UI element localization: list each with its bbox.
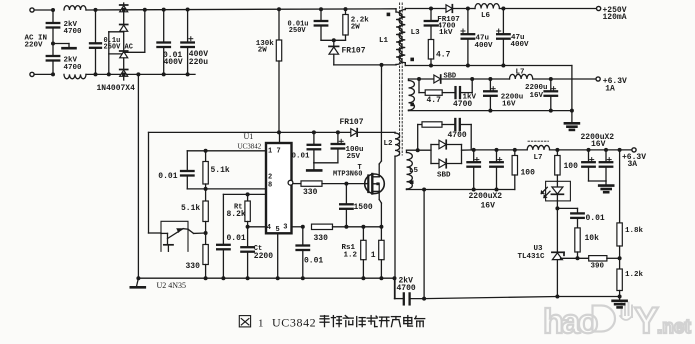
wire 6.3V1A winding top [409,77,434,81]
transformer secondary winding L5 [407,150,413,189]
svg-text:2: 2 [268,174,272,182]
svg-text:220u: 220u [189,58,208,67]
node +6.3V 1A output terminal [596,77,600,81]
wire pin3 current sense [292,225,305,229]
wire L5 top node [407,148,432,152]
inductor line-filter choke top winding [64,6,86,10]
svg-text:U2 4N35: U2 4N35 [157,281,187,290]
svg-text:3A: 3A [628,160,638,169]
svg-text:L5: L5 [409,167,419,175]
svg-text:L1: L1 [379,37,389,45]
wire SBD out [462,148,476,152]
resistor 100 LED feed [555,148,560,181]
label 4700 snubber 3A [448,131,467,140]
wire bridge AC2 stub [107,32,124,77]
label 2.2k 2W [351,17,370,32]
svg-text:16V: 16V [530,92,544,100]
wire [34,9,53,11]
label 2200ux2 16V [469,192,503,211]
svg-text:4700: 4700 [397,284,416,293]
diode SBD pair lower [431,145,462,168]
label +250V 120mA [603,6,627,22]
svg-text:3: 3 [283,224,287,232]
label 4.7 snubber [427,96,442,105]
svg-text:L2: L2 [384,140,394,148]
svg-text:UC3842: UC3842 [238,143,262,151]
ground 6.3V1A [565,109,579,130]
svg-text:390: 390 [591,262,605,270]
inductor L7 filter 6.3V1A [472,74,598,79]
svg-text:4700: 4700 [64,28,83,36]
svg-text:4700: 4700 [64,64,83,72]
diode FR107 rectifier 250V [446,5,468,13]
ground Vcc caps [307,163,338,171]
wire primary ground rail [138,276,396,280]
label 5.1k lower [181,204,200,213]
transformer secondary winding L4 [409,79,415,111]
capacitor 100u 25V Vcc [332,130,345,162]
wire bottom AC rail [86,73,195,75]
capacitor 47u 400V first [461,7,474,68]
wire LED cathode [555,201,559,211]
svg-text:400V: 400V [164,58,183,67]
wire TL431 ref [561,257,589,259]
svg-text:4700: 4700 [453,100,472,109]
label 4.7 [436,51,451,60]
label 100 bleeder [521,169,536,178]
label 1 ohm [371,251,376,260]
svg-text:2200uX2: 2200uX2 [469,192,503,201]
wire drain [380,65,382,161]
svg-text:1kV: 1kV [439,29,453,37]
svg-text:2W: 2W [351,24,361,32]
svg-text:5.1k: 5.1k [211,166,230,175]
label UC3842 [238,143,262,151]
label U1 [244,132,254,141]
svg-text:hao: hao [543,303,598,341]
svg-text:U1: U1 [244,132,254,141]
wire source [379,203,383,229]
node AC input terminal bottom [30,72,34,76]
diode FR107 Vcc rectifier [340,118,364,136]
svg-text:7: 7 [277,147,281,155]
svg-text:8.2k: 8.2k [227,210,246,219]
label Rs1 1.2 [342,244,358,259]
svg-text:220V: 220V [25,41,44,49]
transformer core [400,3,403,155]
wire Vcc rail [149,130,396,134]
watermark [543,300,691,341]
wire 250V bottom rail [405,65,572,67]
resistor Rt 8.2k [245,194,250,228]
resistor 130k 2W startup [276,7,281,132]
label FR107 [437,16,460,24]
label 0.01 sense [304,256,323,265]
transistor T MTP3N60 MOSFET [365,161,385,203]
svg-text:330: 330 [314,234,329,243]
svg-text:0.01: 0.01 [586,214,605,223]
wire 250V top rail left [405,8,446,10]
capacitor snubber 1kV 4700 [442,79,472,98]
capacitor C4 220u 400V electrolytic [181,8,194,77]
capacitor CX 0.1u 250VAC [90,8,101,77]
wire pin7 Vcc stub [279,132,281,143]
label 0.01 Vcc [292,152,311,160]
wire 3A bottom rail [407,188,515,192]
svg-text:FR107: FR107 [340,118,364,127]
label 47u 400V second [511,34,530,49]
svg-text:0.01: 0.01 [304,256,323,265]
resistor 330 divider [203,233,208,280]
resistor snubber 4.7 6.3V1A [419,79,442,95]
wire pin1 net [187,150,266,152]
ground secondary [613,297,627,308]
capacitor 2200u second 3A [490,148,503,192]
resistor 1.8k [617,148,622,258]
inductor L7 filter 3A [527,141,634,150]
label 330 gate [303,188,318,197]
svg-text:UC3842: UC3842 [272,315,316,329]
diode bridge D4 1N4007 [120,8,128,80]
capacitor 0.01 sense filter [297,227,310,280]
label L6 [481,12,491,20]
wire pin2 net [187,188,266,190]
label 1N4007X4 [97,84,136,93]
svg-text:1500: 1500 [354,203,373,212]
label L3 and polarity dot [410,29,420,61]
capacitor 2200u third 3A [582,148,595,181]
svg-text:400V: 400V [475,42,494,50]
svg-text:16V: 16V [481,201,496,210]
resistor 330 sense [312,224,333,229]
wire sense to source [333,225,382,229]
capacitor 0.01 comp TL431 [571,208,584,228]
capacitor 1500 gate [340,184,353,229]
transformer primary winding L1 [396,9,402,65]
svg-text:0.01: 0.01 [227,234,246,243]
label 47u 400V first [475,35,494,50]
capacitor Ct 2200 [241,227,254,280]
diode SBD pair upper [431,140,462,163]
svg-text:1.2: 1.2 [344,251,358,259]
label +6.3V 1A [603,77,627,94]
svg-text:330: 330 [186,262,201,271]
capacitor clamp 0.01u 250V [315,7,328,40]
svg-text:1: 1 [258,317,264,329]
pin labels 2 8 [268,174,272,190]
capacitor snubber 4700 1kV [425,7,438,40]
svg-text:1.8k: 1.8k [625,227,644,235]
label AC IN 220V [25,35,48,50]
wire opto collector drop [149,132,162,233]
capacitor 0.01 comp [181,151,194,189]
svg-text:MTP3N60: MTP3N60 [333,171,362,179]
ground 3A caps [589,181,614,192]
wire bridge AC return stub [124,8,147,53]
node AC input terminal top [30,8,34,12]
wire primary negative drop [136,72,140,278]
label CX 0.1u 250V AC [104,37,133,51]
wire clamp to drain node [334,63,396,67]
svg-text:L7: L7 [516,68,525,76]
label L7 3A [534,154,543,162]
svg-text:U3: U3 [534,245,544,253]
label 130k 2W [256,40,275,55]
svg-text:0.01: 0.01 [158,172,177,181]
capacitor 2200u fourth 3A [600,148,613,181]
resistor Rs1 1.2 [361,227,366,280]
capacitor C3 0.01 400V [157,8,170,77]
label L1 and polarity dot [379,13,390,45]
svg-text:250V: 250V [289,27,307,35]
label 0.01u 250V [288,20,309,35]
svg-text:4: 4 [267,224,271,232]
capacitor 2200u 16V second [545,77,558,113]
resistor 1.2k [617,258,622,298]
label C3 0.01 400V [163,51,183,67]
inductor L6 [468,4,599,9]
label L5 and polarity dot [409,167,419,184]
svg-text:SBD: SBD [444,73,457,81]
svg-text:1A: 1A [605,85,615,94]
svg-text:TL431C: TL431C [518,253,546,261]
wire opto emitter to node [194,231,208,235]
resistor 5.1k divider lower [203,189,208,233]
label 390 [591,262,605,270]
label Ct 2200 [254,245,273,261]
wire secondary ground rail [424,297,619,299]
label 330 divider [186,262,201,271]
svg-text:16V: 16V [502,100,516,108]
label FR107 clamp [342,47,366,56]
IC U1 UC3842 [266,143,292,233]
label 0.01 comp [158,172,177,181]
label T MTP3N60 [333,164,362,179]
optocoupler U2 4N35 phototransistor [161,221,194,251]
label SBD pair [437,172,451,180]
optocoupler U2 4N35 LED [541,181,571,201]
resistor 10k [575,228,580,260]
label 100u 25V [346,146,364,161]
wire [34,73,53,75]
label 2kV 4700 [397,277,416,293]
capacitor 2200u first 3A [467,150,480,192]
svg-text:5.1k: 5.1k [181,204,200,213]
wire 3A rail [474,149,528,151]
wire 6.3V1A bottom rail [409,110,572,112]
wire top AC rail [86,9,124,11]
capacitor C1 2kV 4700 upper [47,8,60,46]
svg-text:16V: 16V [591,140,606,149]
svg-text:L3: L3 [411,29,421,37]
resistor 390 [589,256,607,261]
label 1500 [354,203,373,212]
label 2200u 16V first [501,94,524,109]
svg-text:8: 8 [268,182,272,190]
resistor 100 bleeder [512,148,517,190]
label 4700 1kV [438,22,457,37]
svg-text:10k: 10k [585,234,600,243]
pin6 output node [288,180,293,185]
pin labels 4 5 3 [267,224,288,235]
label 100 LED [564,162,579,171]
svg-text:1: 1 [268,147,272,155]
label 1.8k [625,227,644,235]
svg-text:2W: 2W [258,47,268,55]
svg-text:120mA: 120mA [603,13,627,22]
wire pin5 ground stub [276,233,280,280]
label C1 2kV 4700 [64,21,83,36]
svg-text:L6: L6 [481,12,491,20]
label 1.2k [625,271,644,279]
wire gate [322,182,366,186]
svg-text:2200: 2200 [254,252,273,261]
diode SBD 6.3V1A [434,75,474,83]
resistor snubber 4.7 [428,40,433,68]
svg-text:4700: 4700 [448,131,467,140]
diode bridge D3 1N4007 [120,51,128,70]
wire top DC rail [124,9,396,10]
capacitor snubber 4700 3A [418,119,472,150]
label +6.3V 3A [622,153,646,169]
label 2200ux2 16V second bank [581,133,615,149]
svg-text:330: 330 [303,188,318,197]
label SBD [444,73,457,81]
svg-text:SBD: SBD [437,172,451,180]
svg-text:100: 100 [521,169,536,178]
inductor line-filter choke bottom winding [64,74,86,78]
svg-text:2200u: 2200u [525,84,548,92]
label 2200u 16V second [525,84,548,100]
svg-text:25V: 25V [347,153,361,161]
diode bridge D2 1N4007 [120,25,128,52]
wire comp branch [557,207,577,209]
diode bridge D1 1N4007 [120,3,128,25]
label 0.01 TL431 [586,214,605,223]
wire secondary return drop [422,190,426,301]
pin labels 1 7 [268,147,281,155]
label 5.1k upper [211,166,230,175]
svg-text:.net: .net [657,317,691,338]
label 330 sense [314,234,329,243]
svg-text:0.01: 0.01 [292,152,311,160]
node +250V output terminal [597,6,601,10]
label U3 TL431C [518,245,546,261]
wire pin4 net [248,226,266,228]
diode clamp FR107 [329,40,339,65]
wire pin8 Vref net [223,192,266,196]
label L2 [384,140,394,148]
label U2 4N35 [157,281,187,290]
capacitor 0.01 Vref bypass [217,194,230,280]
resistor 5.1k feedback upper [203,149,208,191]
polarity dot L4 [410,103,414,107]
caption text [239,315,424,329]
ground stub at C1/C2 midpoint [53,44,76,49]
wire clamp junction [321,38,346,42]
transformer aux winding L2 [395,132,400,298]
ground primary [131,276,145,287]
svg-text:4.7: 4.7 [427,96,442,105]
svg-text:100: 100 [564,162,579,171]
wire ref to divider [607,256,622,260]
wire 250V return drop [571,66,573,111]
resistor 330 gate [293,181,322,186]
label C4 400V 220u [189,50,208,67]
svg-text:FR107: FR107 [342,47,366,56]
resistor clamp 2.2k 2W [343,7,348,40]
label L7 [516,68,525,76]
resistor 1 ohm [379,227,384,280]
svg-text:400V: 400V [511,41,530,49]
transformer secondary winding L3 [399,9,405,66]
svg-text:L7: L7 [534,154,543,162]
svg-text:4.7: 4.7 [436,51,451,60]
label Rt 8.2k [227,204,246,220]
label 10k [585,234,600,243]
label 0.01 Vref [227,234,246,243]
IC U3 TL431C [552,208,564,298]
label 1kV 4700 [453,94,477,109]
capacitor 0.01 Vcc bypass [308,130,321,162]
capacitor 47u 400V second [497,7,510,68]
node +6.3V 3A output terminal [632,148,636,152]
svg-text:1: 1 [371,251,376,260]
capacitor C2 2kV 4700 lower [47,44,60,77]
capacitor 2200u 16V first [484,77,497,113]
svg-text:1.2k: 1.2k [625,271,644,279]
label C2 2kV 4700 [64,57,83,72]
svg-text:1N4007X4: 1N4007X4 [97,84,136,93]
svg-text:Y: Y [634,300,659,341]
capacitor 2kV 4700 Y-cap [395,278,425,304]
